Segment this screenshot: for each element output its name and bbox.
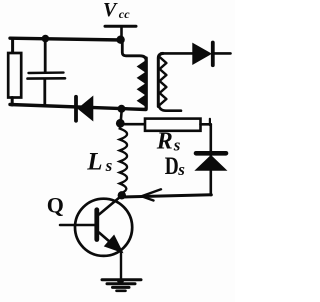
transistor Q base bar	[94, 210, 99, 240]
svg-text:R: R	[156, 129, 173, 155]
transformer T1 secondary loops	[160, 57, 167, 105]
transformer T1 secondary bar	[158, 53, 163, 106]
label Vcc	[103, 0, 130, 21]
current arrow on bottom wire	[142, 189, 162, 200]
wire top rail	[10, 38, 122, 40]
wire node D to resistor Rs	[123, 123, 145, 126]
capacitor C1	[28, 39, 66, 107]
resistor R1	[8, 39, 21, 106]
diode Ds	[196, 153, 227, 170]
svg-text:cc: cc	[119, 7, 130, 21]
wire secondary bottom stub	[158, 103, 181, 111]
wire bottom rail	[10, 105, 146, 110]
wire node C to node D	[121, 109, 122, 121]
node E (collector junction)	[118, 191, 126, 199]
transformer T1 primary loops	[137, 61, 145, 107]
wire right vertical	[210, 124, 213, 195]
ground	[102, 278, 141, 290]
svg-text:s: s	[177, 160, 185, 179]
diode D1	[76, 97, 93, 121]
svg-text:s: s	[105, 156, 113, 175]
resistor Rs	[145, 119, 201, 131]
transformer T1 primary bar	[145, 58, 148, 109]
node C (bottom rail junction)	[118, 105, 126, 113]
inductor Ls	[120, 125, 127, 193]
label Rs	[156, 129, 181, 155]
transistor Q body	[75, 199, 132, 256]
svg-text:Q: Q	[47, 192, 64, 217]
svg-text:V: V	[103, 0, 118, 21]
transistor Q base lead	[60, 224, 95, 227]
wire bottom (junction to Ds branch)	[123, 195, 212, 197]
label Ls	[86, 149, 112, 176]
Vcc terminal	[105, 26, 136, 40]
label Ds	[165, 153, 185, 180]
wire Vcc junction to transformer primary top	[122, 41, 146, 108]
svg-text:s: s	[173, 135, 181, 154]
wire emitter to ground	[120, 251, 122, 281]
svg-text:L: L	[86, 149, 102, 176]
transistor Q emitter lead	[99, 233, 122, 252]
transistor Q collector lead	[99, 196, 122, 215]
diode D2	[193, 43, 231, 66]
svg-text:D: D	[165, 153, 179, 180]
node B (Vcc junction on top rail)	[116, 36, 124, 44]
wire secondary top to diode D2	[161, 52, 193, 55]
wire Rs to right vertical	[201, 119, 211, 125]
node A (cap to top rail)	[42, 35, 50, 43]
node D (Ls / Rs junction)	[116, 119, 125, 128]
